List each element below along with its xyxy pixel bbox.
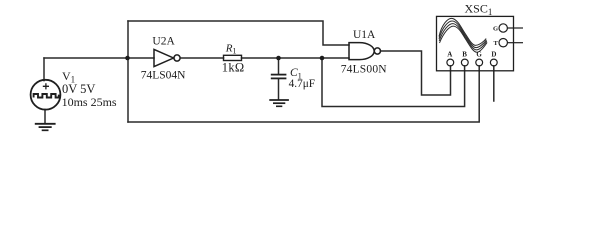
svg-text:74LS04N: 74LS04N: [141, 70, 186, 82]
ground GND1: [35, 124, 56, 131]
svg-text:74LS00N: 74LS00N: [341, 64, 388, 76]
wire U2A output to R1: [180, 57, 223, 59]
voltage source V1: [31, 80, 61, 110]
svg-text:10ms 25ms: 10ms 25ms: [62, 95, 117, 109]
svg-text:G: G: [476, 51, 482, 59]
oscilloscope screen waveform: [439, 18, 487, 52]
node capacitor tap: [276, 56, 281, 61]
svg-text:R1: R1: [225, 42, 237, 55]
wire input net V1 to U2A: [44, 57, 154, 59]
inverter U2A: [154, 49, 180, 66]
oscilloscope terminal A: [447, 59, 454, 66]
wire R1 to U1A input: [242, 57, 350, 59]
wire U1A output to scope A: [380, 51, 450, 95]
wire V1 to ground: [44, 109, 46, 123]
wire scope T stub: [493, 66, 495, 101]
oscilloscope terminal G bottom: [476, 59, 483, 66]
resistor R1: [224, 55, 242, 60]
svg-text:B: B: [462, 51, 467, 59]
svg-text:T: T: [494, 40, 499, 47]
wire V1 stem top: [43, 58, 45, 81]
wire feedback top: [128, 21, 349, 45]
oscilloscope XSC1: [437, 16, 514, 70]
oscilloscope terminal B: [461, 59, 468, 66]
oscilloscope terminal T bottom: [490, 59, 497, 66]
wire C1 to ground: [278, 79, 280, 100]
oscilloscope terminal G right: [499, 24, 523, 32]
wire C1 stem: [278, 58, 280, 74]
wire bottom rail to scope G: [128, 66, 479, 122]
oscilloscope terminal T right: [499, 39, 523, 47]
svg-text:A: A: [447, 51, 452, 59]
capacitor C1: [271, 75, 287, 79]
svg-text:G: G: [493, 26, 498, 33]
svg-text:4.7μF: 4.7μF: [289, 78, 315, 90]
svg-text:1kΩ: 1kΩ: [222, 61, 245, 75]
svg-text:D: D: [491, 51, 496, 59]
svg-text:U2A: U2A: [152, 36, 175, 48]
node junction input net: [125, 56, 130, 61]
ground GND2: [269, 100, 289, 106]
nand gate U1A: [349, 43, 381, 60]
node scope B tap: [320, 56, 325, 61]
svg-text:XSC1: XSC1: [465, 1, 493, 16]
wire scope B channel tap: [322, 58, 465, 107]
svg-text:U1A: U1A: [353, 29, 376, 41]
wire left vertical to bottom rail: [127, 21, 129, 122]
